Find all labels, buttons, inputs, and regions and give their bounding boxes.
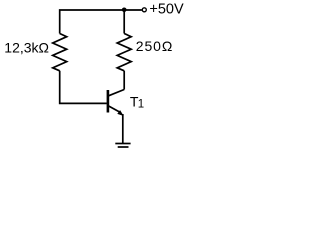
svg-text:250Ω: 250Ω	[136, 38, 173, 54]
svg-text:1: 1	[138, 99, 144, 111]
transistor Q1 (T1) NPN: collector lead	[108, 90, 124, 96]
transistor Q1 (T1) NPN: base bar	[107, 90, 110, 113]
terminal: +50V supply open circle	[142, 8, 146, 12]
node junction dot on top rail	[122, 8, 127, 13]
label T1	[130, 93, 144, 110]
label: +50V	[149, 2, 184, 18]
wire: +50V top rail with left branch drop	[60, 10, 142, 34]
wire: R1 bottom to transistor base	[60, 71, 107, 104]
ground symbol	[115, 144, 130, 148]
resistor R1 12,3kΩ (base resistor)	[53, 34, 67, 71]
wire: top rail junction down to R2	[123, 10, 125, 34]
svg-text:+50V: +50V	[149, 2, 184, 18]
resistor R2 250Ω (collector resistor)	[117, 34, 131, 71]
svg-text:12,3kΩ: 12,3kΩ	[4, 40, 49, 56]
wire: emitter to ground	[122, 114, 124, 143]
value label 12,3kΩ	[4, 40, 49, 56]
value label 250Ω	[136, 38, 173, 54]
transistor Q1 (T1) NPN: emitter lead with arrow	[108, 106, 124, 116]
wire: R2 bottom to collector	[123, 71, 125, 90]
